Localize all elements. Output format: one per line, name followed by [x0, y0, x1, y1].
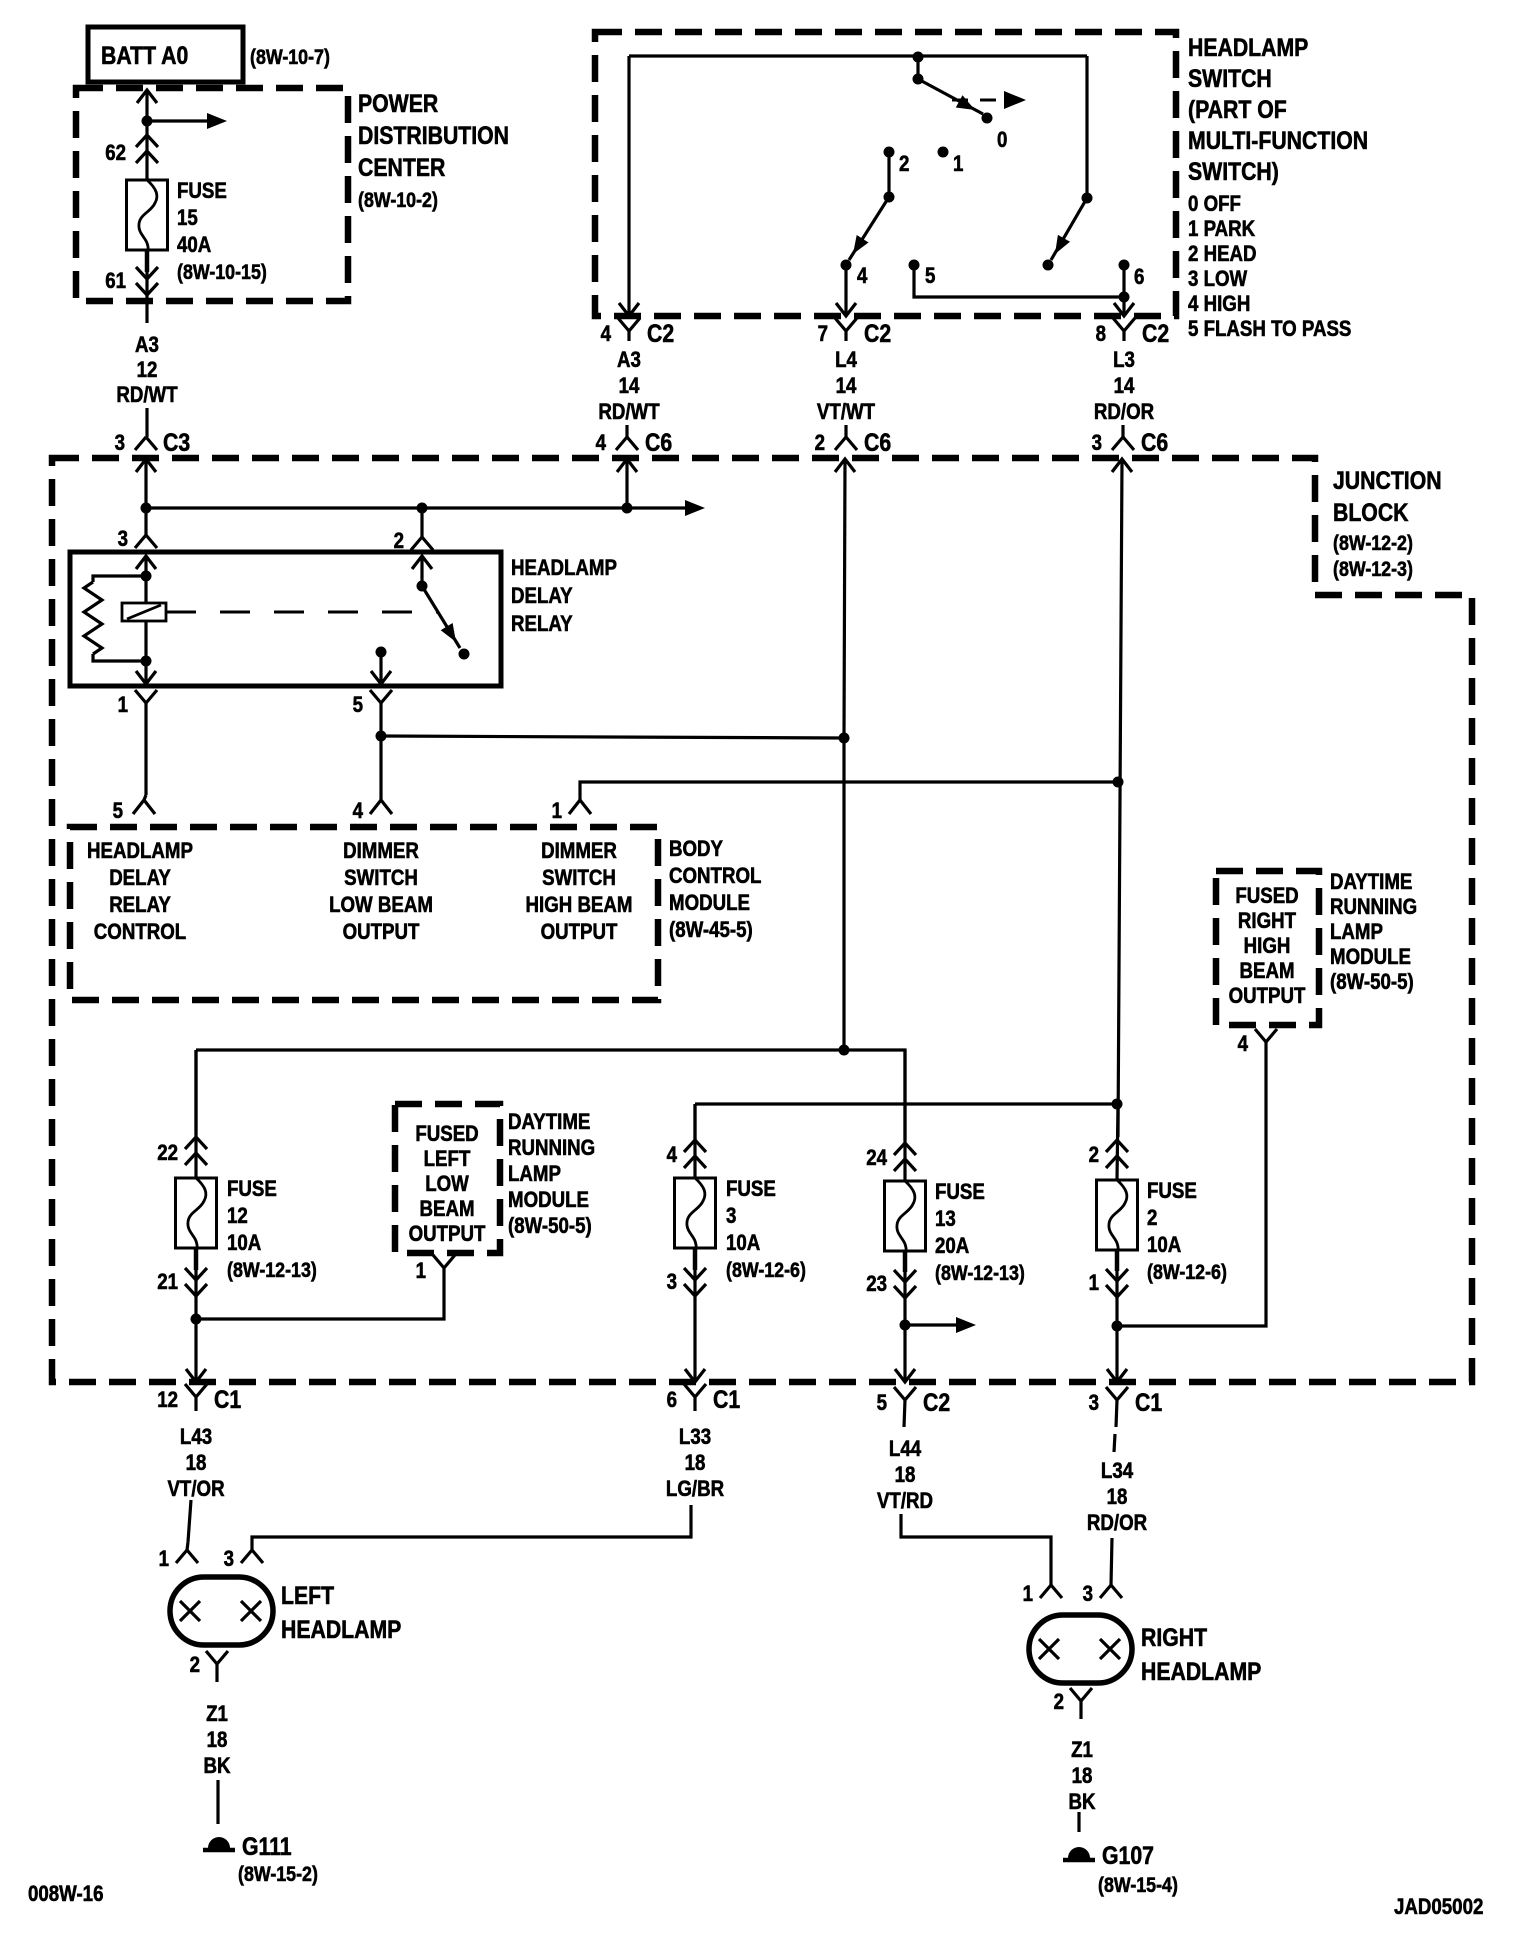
svg-text:OUTPUT: OUTPUT — [343, 921, 420, 945]
wire label L4 14 VT/WT — [817, 349, 876, 425]
right headlamp pin 2 connector — [1054, 1688, 1092, 1719]
svg-text:RIGHT: RIGHT — [1141, 1623, 1207, 1651]
svg-text:C2: C2 — [923, 1388, 950, 1416]
fuse F12 10A — [176, 1178, 217, 1249]
svg-text:SWITCH: SWITCH — [1188, 64, 1272, 92]
wire label A3 12 RD/WT — [116, 334, 178, 408]
right headlamp bulb — [1029, 1615, 1132, 1683]
BCM headlamp delay relay control label — [87, 840, 193, 945]
svg-text:4: 4 — [667, 1144, 678, 1168]
fuse 12 output chevrons — [157, 1248, 207, 1296]
svg-text:18: 18 — [895, 1464, 916, 1488]
svg-text:8: 8 — [1096, 323, 1106, 347]
contact 6 — [1119, 260, 1145, 290]
svg-text:1: 1 — [159, 1548, 169, 1572]
svg-text:10A: 10A — [1147, 1234, 1182, 1258]
right headlamp filament 1 — [1039, 1639, 1059, 1659]
svg-text:12: 12 — [137, 359, 158, 383]
connector chevrons pin 62 — [136, 135, 158, 163]
headlamp switch position legend — [1188, 193, 1351, 342]
wire contact 4 to C2 pin 7 — [836, 265, 856, 316]
relay label — [511, 557, 617, 637]
svg-text:A3: A3 — [135, 334, 159, 358]
svg-text:Z1: Z1 — [206, 1703, 228, 1727]
svg-text:10A: 10A — [726, 1232, 761, 1256]
wire VT/OR to left headlamp pin 1 — [188, 1500, 191, 1542]
svg-text:13: 13 — [935, 1208, 956, 1232]
svg-text:1: 1 — [953, 153, 963, 177]
relay pin 1 connector — [118, 690, 157, 795]
power distribution center label — [358, 89, 509, 212]
svg-text:3: 3 — [224, 1548, 234, 1572]
svg-text:4: 4 — [601, 323, 612, 347]
connector C1 pin 3 — [1089, 1387, 1163, 1452]
relay pin 5 connector — [353, 690, 392, 736]
svg-text:(8W-12-2): (8W-12-2) — [1333, 532, 1413, 556]
svg-text:5: 5 — [877, 1392, 887, 1416]
left headlamp filament 2 — [241, 1601, 261, 1621]
connector C1 pin 3 arrow — [1107, 1369, 1127, 1382]
drawing id JAD05002 — [1394, 1896, 1483, 1920]
svg-text:FUSE: FUSE — [1147, 1180, 1197, 1204]
sheet number 008W-16 — [28, 1883, 103, 1907]
switch left vertical wire to C2 pin 4 — [627, 56, 630, 314]
svg-text:C3: C3 — [163, 428, 190, 456]
svg-text:2: 2 — [190, 1654, 200, 1678]
svg-text:18: 18 — [207, 1729, 228, 1753]
svg-text:3: 3 — [1089, 1392, 1099, 1416]
svg-text:4: 4 — [1238, 1033, 1249, 1057]
svg-text:LEFT: LEFT — [281, 1581, 334, 1609]
wire arrow to other circuits — [147, 113, 227, 129]
svg-text:1: 1 — [118, 694, 128, 718]
BCM pin 5 connector — [113, 795, 155, 823]
wire LG/BR to left headlamp pin 3 — [252, 1505, 691, 1550]
wire contact 6 down — [1119, 265, 1130, 314]
svg-text:23: 23 — [866, 1273, 887, 1297]
connector C6 pin 4 — [596, 428, 673, 456]
svg-text:C6: C6 — [1141, 428, 1168, 456]
svg-text:BEAM: BEAM — [419, 1198, 474, 1222]
fuse 3 output chevrons — [667, 1248, 706, 1296]
relay coil top node — [141, 571, 152, 582]
headlamp switch label — [1188, 33, 1368, 185]
connector C2 pin 4 — [601, 318, 675, 347]
svg-text:C6: C6 — [645, 428, 672, 456]
fused left low beam output label — [409, 1123, 486, 1247]
svg-text:4: 4 — [353, 800, 364, 824]
headlamp switch dashed box — [595, 32, 1176, 316]
svg-text:MODULE: MODULE — [508, 1189, 589, 1213]
wire to C6 pin 3 — [1121, 425, 1124, 437]
svg-text:C1: C1 — [713, 1385, 740, 1413]
svg-text:VT/WT: VT/WT — [817, 401, 876, 425]
relay coil resistor — [84, 576, 146, 661]
svg-text:DAYTIME: DAYTIME — [508, 1111, 590, 1135]
svg-text:BATT A0: BATT A0 — [101, 41, 188, 69]
wire RD/OR to right headlamp pin 3 — [1111, 1538, 1112, 1585]
svg-text:L3: L3 — [1113, 349, 1135, 373]
svg-text:L33: L33 — [679, 1426, 711, 1450]
svg-text:LOW: LOW — [425, 1173, 469, 1197]
DRL left pin 1 connector — [416, 1255, 455, 1283]
wire label Z1 18 BK right — [1068, 1739, 1095, 1815]
svg-text:FUSE: FUSE — [935, 1181, 985, 1205]
blade pivot 2 to contact 4 — [841, 197, 890, 271]
svg-text:RUNNING: RUNNING — [508, 1137, 595, 1161]
node high beam feeder — [1112, 1099, 1123, 1110]
node fuse 13 output — [900, 1320, 911, 1331]
connector C1 pin 12 arrow — [186, 1369, 206, 1382]
wire to C6 pin 4 — [625, 425, 628, 437]
svg-text:22: 22 — [157, 1142, 178, 1166]
left headlamp filament 1 — [180, 1601, 200, 1621]
relay pin 1 internal arrow — [136, 661, 156, 684]
svg-text:CONTROL: CONTROL — [94, 921, 186, 945]
svg-text:(8W-45-5): (8W-45-5) — [669, 919, 753, 943]
svg-text:MODULE: MODULE — [1330, 946, 1411, 970]
svg-text:20A: 20A — [935, 1235, 970, 1259]
fuse F15 40A — [127, 180, 168, 251]
connector C2 pin 8 — [1096, 318, 1170, 347]
body control module dashed box — [70, 827, 658, 1000]
connector C2 pin 5 — [877, 1387, 951, 1427]
svg-text:RIGHT: RIGHT — [1238, 910, 1297, 934]
wire label Z1 18 BK left — [203, 1703, 230, 1779]
svg-text:CONTROL: CONTROL — [669, 865, 761, 889]
svg-text:OUTPUT: OUTPUT — [1229, 985, 1306, 1009]
junction block dashed outline — [52, 458, 1472, 1382]
svg-text:1: 1 — [1023, 1583, 1033, 1607]
power distribution center dashed box — [76, 88, 348, 301]
contact 1 — [938, 147, 964, 177]
svg-text:2: 2 — [1089, 1144, 1099, 1168]
svg-text:15: 15 — [177, 207, 198, 231]
svg-text:18: 18 — [186, 1452, 207, 1476]
connector chevrons pin 61 — [136, 250, 158, 295]
svg-text:L43: L43 — [180, 1426, 212, 1450]
svg-text:(8W-12-6): (8W-12-6) — [1147, 1261, 1227, 1285]
wire bus to relay pin 3 — [144, 508, 147, 535]
fuse 3 value label — [726, 1178, 806, 1283]
svg-text:A3: A3 — [617, 349, 641, 373]
svg-text:FUSE: FUSE — [726, 1178, 776, 1202]
left headlamp pin 1 connector — [159, 1542, 198, 1571]
svg-text:SWITCH): SWITCH) — [1188, 157, 1279, 185]
svg-text:BEAM: BEAM — [1239, 960, 1294, 984]
wire label A3 14 RD/WT — [598, 349, 660, 425]
svg-text:L44: L44 — [889, 1438, 922, 1462]
left headlamp pin 2 connector — [190, 1651, 228, 1682]
connector C1 pin 12 — [157, 1384, 241, 1413]
svg-text:2 HEAD: 2 HEAD — [1188, 243, 1257, 267]
wire label L33 18 LG/BR — [666, 1426, 724, 1502]
svg-text:6: 6 — [1134, 266, 1144, 290]
svg-text:6: 6 — [667, 1389, 677, 1413]
relay pin 3 internal arrow — [136, 556, 156, 576]
connector C2 pin 5 arrow — [895, 1369, 915, 1382]
pin 61 label — [105, 270, 126, 294]
svg-text:FUSE: FUSE — [227, 1178, 277, 1202]
svg-text:(8W-50-5): (8W-50-5) — [1330, 971, 1414, 995]
svg-text:HEADLAMP: HEADLAMP — [281, 1615, 401, 1643]
svg-text:5 FLASH TO PASS: 5 FLASH TO PASS — [1188, 318, 1351, 342]
connector C6 pin 4 arrow — [617, 459, 637, 508]
svg-text:HIGH: HIGH — [1244, 935, 1291, 959]
relay pin 2 internal arrow — [412, 556, 432, 586]
svg-text:2: 2 — [1147, 1207, 1157, 1231]
ground G111 — [203, 1837, 235, 1850]
wire fuse 2 output — [1115, 1250, 1118, 1382]
svg-text:L34: L34 — [1101, 1460, 1134, 1484]
svg-text:RD/OR: RD/OR — [1087, 1512, 1147, 1536]
wire to connector C3 — [145, 408, 148, 437]
svg-text:0: 0 — [997, 129, 1007, 153]
right headlamp label — [1141, 1623, 1261, 1685]
connector C3 pin 3 — [115, 428, 191, 456]
BCM pin 4 connector — [353, 800, 392, 824]
svg-text:RUNNING: RUNNING — [1330, 896, 1417, 920]
fuse 13 value label — [935, 1181, 1025, 1286]
svg-text:2: 2 — [815, 432, 825, 456]
node on RD/OR wire — [1113, 777, 1124, 788]
wire label L34 18 RD/OR — [1087, 1460, 1147, 1536]
svg-text:3 LOW: 3 LOW — [1188, 268, 1248, 292]
svg-text:L4: L4 — [835, 349, 857, 373]
svg-text:SWITCH: SWITCH — [542, 867, 616, 891]
svg-text:2: 2 — [1054, 1691, 1064, 1715]
body control module label — [669, 838, 761, 943]
svg-text:LAMP: LAMP — [508, 1163, 561, 1187]
svg-text:3: 3 — [726, 1205, 736, 1229]
wire label L44 18 VT/RD — [877, 1438, 933, 1514]
left headlamp label — [281, 1581, 401, 1643]
svg-text:C2: C2 — [647, 319, 674, 347]
svg-text:SWITCH: SWITCH — [344, 867, 418, 891]
DRL module left dashed box — [395, 1104, 500, 1253]
svg-text:4: 4 — [857, 265, 868, 289]
svg-text:18: 18 — [1107, 1486, 1128, 1510]
svg-text:3: 3 — [667, 1271, 677, 1295]
svg-text:(8W-10-7): (8W-10-7) — [250, 46, 330, 70]
svg-text:LEFT: LEFT — [424, 1148, 471, 1172]
svg-text:(8W-10-15): (8W-10-15) — [177, 261, 267, 285]
svg-text:24: 24 — [866, 1147, 887, 1171]
switch right vertical wire — [1082, 56, 1093, 204]
position 0 label — [997, 129, 1007, 153]
svg-text:MULTI-FUNCTION: MULTI-FUNCTION — [1188, 126, 1368, 154]
node on VT/WT wire — [839, 733, 850, 744]
headlamp delay relay box — [70, 552, 501, 686]
svg-text:C1: C1 — [1135, 1388, 1162, 1416]
fuse F2 10A — [1097, 1180, 1138, 1251]
svg-text:(8W-12-13): (8W-12-13) — [935, 1262, 1025, 1286]
svg-text:5: 5 — [113, 800, 123, 824]
node fuse 2 output — [1112, 1321, 1123, 1332]
svg-text:G107: G107 — [1102, 1841, 1154, 1869]
svg-text:4: 4 — [596, 432, 607, 456]
wire PDC feed with arrow into BATT — [137, 90, 157, 121]
svg-text:(8W-15-4): (8W-15-4) — [1098, 1874, 1178, 1898]
svg-text:FUSED: FUSED — [415, 1123, 478, 1147]
pin 62 label — [105, 142, 126, 166]
relay pin 5 contact — [371, 647, 391, 685]
svg-text:3: 3 — [118, 528, 128, 552]
svg-text:DIMMER: DIMMER — [343, 840, 419, 864]
connector C2 pin 4 arrow — [619, 303, 639, 316]
wire to C6 pin 2 — [844, 425, 847, 437]
svg-text:BLOCK: BLOCK — [1333, 498, 1409, 526]
fuse 13 input chevrons — [866, 1050, 916, 1181]
fuse 15 value label — [177, 180, 267, 285]
svg-text:OUTPUT: OUTPUT — [541, 921, 618, 945]
svg-text:5: 5 — [353, 694, 363, 718]
fuse 12 value label — [227, 1178, 317, 1283]
left headlamp bulb — [170, 1577, 273, 1645]
svg-text:61: 61 — [105, 270, 126, 294]
svg-text:14: 14 — [619, 375, 640, 399]
svg-text:HEADLAMP: HEADLAMP — [511, 557, 617, 581]
wire to DRL left pin 1 — [196, 1268, 444, 1319]
svg-text:VT/OR: VT/OR — [167, 1478, 224, 1502]
connector C6 pin 2 arrow — [835, 459, 855, 738]
svg-text:12: 12 — [157, 1389, 178, 1413]
blade high-beam to contact — [1043, 198, 1088, 271]
svg-text:BK: BK — [1068, 1791, 1095, 1815]
svg-text:LG/BR: LG/BR — [666, 1478, 724, 1502]
fuse 12 input chevrons — [157, 1050, 207, 1178]
node fuse 12 output — [191, 1314, 202, 1325]
svg-text:14: 14 — [836, 375, 857, 399]
svg-text:G111: G111 — [242, 1832, 292, 1860]
relay coil — [122, 576, 166, 661]
ground G107 label — [1098, 1841, 1178, 1897]
svg-text:RD/WT: RD/WT — [598, 401, 660, 425]
svg-text:OUTPUT: OUTPUT — [409, 1223, 486, 1247]
wire arrow fuse 13 spur — [905, 1317, 976, 1333]
fused right high beam output label — [1229, 885, 1306, 1009]
contact 5 — [909, 260, 936, 289]
battery feed box BATT A0 — [88, 27, 243, 82]
svg-text:JUNCTION: JUNCTION — [1333, 466, 1442, 494]
fuse 13 output chevrons — [866, 1251, 916, 1298]
svg-text:3: 3 — [1083, 1583, 1093, 1607]
svg-text:HIGH BEAM: HIGH BEAM — [526, 894, 633, 918]
svg-text:3: 3 — [115, 432, 125, 456]
wire fuse to C3 — [145, 250, 148, 323]
connector C3 junction-block side arrow — [136, 459, 156, 508]
svg-text:1: 1 — [552, 800, 562, 824]
svg-text:7: 7 — [818, 323, 828, 347]
svg-text:(8W-12-13): (8W-12-13) — [227, 1259, 317, 1283]
reference (8W-10-7) — [250, 46, 330, 70]
svg-text:1: 1 — [1089, 1272, 1099, 1296]
svg-text:FUSED: FUSED — [1235, 885, 1298, 909]
svg-text:10A: 10A — [227, 1232, 262, 1256]
svg-text:HEADLAMP: HEADLAMP — [87, 840, 193, 864]
relay pin 3 connector — [118, 528, 157, 552]
svg-text:VT/RD: VT/RD — [877, 1490, 933, 1514]
junction block label — [1333, 466, 1442, 581]
connector C2 pin 7 — [818, 318, 892, 347]
svg-text:18: 18 — [685, 1452, 706, 1476]
wire DRL right pin 4 to fuse 2 output — [1117, 1042, 1266, 1326]
DRL module right label — [1330, 871, 1417, 995]
right headlamp pin 3 connector — [1083, 1583, 1122, 1607]
wire left headlamp to ground — [216, 1780, 219, 1824]
ground G111 label — [238, 1832, 318, 1886]
node low beam feeder — [839, 738, 850, 1056]
BCM dimmer switch high beam output label — [526, 840, 633, 945]
power bus wire — [141, 500, 706, 516]
svg-text:18: 18 — [1072, 1765, 1093, 1789]
connector C1 pin 6 — [667, 1384, 741, 1413]
svg-text:RELAY: RELAY — [109, 894, 171, 918]
svg-text:C2: C2 — [864, 319, 891, 347]
svg-text:21: 21 — [157, 1271, 178, 1295]
wire contact 5 to contact 6 node — [914, 265, 1124, 297]
switch top bus wire — [629, 54, 1087, 57]
svg-text:62: 62 — [105, 142, 126, 166]
svg-text:5: 5 — [925, 265, 935, 289]
wire fuse 12 output — [194, 1248, 197, 1382]
connector C6 pin 3 arrow — [1112, 459, 1132, 1137]
svg-text:(8W-12-6): (8W-12-6) — [726, 1259, 806, 1283]
wire label L43 18 VT/OR — [167, 1426, 224, 1502]
fuse 3 input chevrons — [667, 1104, 706, 1178]
wire right headlamp to ground — [1077, 1812, 1080, 1832]
DRL module right dashed box — [1216, 871, 1319, 1025]
relay switch blade — [417, 581, 470, 660]
svg-text:008W-16: 008W-16 — [28, 1883, 103, 1907]
svg-text:RD/OR: RD/OR — [1094, 401, 1154, 425]
fuse 2 output chevrons — [1089, 1250, 1128, 1297]
node junction in PDC — [142, 116, 153, 127]
left headlamp pin 3 connector — [224, 1548, 263, 1572]
svg-text:0 OFF: 0 OFF — [1188, 193, 1241, 217]
relay pin 2 connector — [394, 530, 433, 554]
contact 4 label — [857, 265, 868, 289]
DRL right pin 4 connector — [1238, 1029, 1277, 1056]
node switch common — [913, 52, 924, 85]
wire VT/RD to right headlamp pin 1 — [901, 1514, 1051, 1585]
svg-text:HEADLAMP: HEADLAMP — [1188, 33, 1308, 61]
svg-text:(8W-50-5): (8W-50-5) — [508, 1215, 592, 1239]
svg-text:1 PARK: 1 PARK — [1188, 218, 1255, 242]
right headlamp pin 1 connector — [1023, 1583, 1062, 1607]
connector C2 pin 8 arrow — [1114, 303, 1134, 316]
svg-text:DISTRIBUTION: DISTRIBUTION — [358, 121, 509, 149]
svg-text:LOW BEAM: LOW BEAM — [329, 894, 433, 918]
fuse 2 value label — [1147, 1180, 1227, 1285]
svg-text:14: 14 — [1114, 375, 1135, 399]
svg-text:(PART OF: (PART OF — [1188, 95, 1287, 123]
svg-text:DELAY: DELAY — [109, 867, 171, 891]
wire fuse 13 output — [903, 1251, 906, 1382]
BCM dimmer switch low beam output label — [329, 840, 433, 945]
svg-text:40A: 40A — [177, 234, 212, 258]
ground G107 — [1063, 1847, 1095, 1860]
svg-text:(8W-10-2): (8W-10-2) — [358, 189, 438, 213]
relay mechanical link dashed — [166, 611, 438, 614]
connector C6 pin 3 — [1092, 428, 1169, 456]
svg-text:FUSE: FUSE — [177, 180, 227, 204]
svg-text:DAYTIME: DAYTIME — [1330, 871, 1412, 895]
svg-text:C6: C6 — [864, 428, 891, 456]
svg-text:Z1: Z1 — [1071, 1739, 1093, 1763]
svg-text:C2: C2 — [1142, 319, 1169, 347]
wire label L3 14 RD/OR — [1094, 349, 1154, 425]
